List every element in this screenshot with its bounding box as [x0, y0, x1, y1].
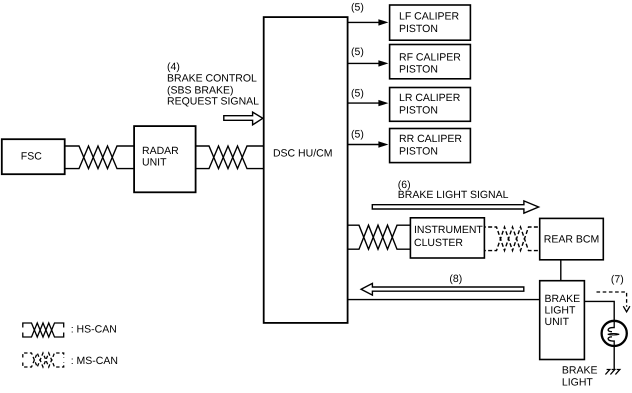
svg-text:REAR BCM: REAR BCM — [544, 234, 599, 246]
svg-text:LIGHT: LIGHT — [562, 377, 594, 389]
box LR CALIPER PISTON — [390, 88, 471, 122]
arrow A6 outline brake light signal arrow — [372, 201, 538, 213]
wire arrow DSC to RF caliper piston — [348, 60, 389, 66]
ground body ground symbol — [605, 370, 619, 375]
box FSC — [2, 139, 65, 174]
svg-text:BRAKE LIGHT SIGNAL: BRAKE LIGHT SIGNAL — [398, 189, 509, 201]
label BRAKE LIGHT — [562, 365, 598, 389]
svg-text:(5): (5) — [351, 128, 364, 140]
svg-text:(5): (5) — [351, 87, 364, 99]
svg-text:CLUSTER: CLUSTER — [414, 237, 463, 249]
svg-text:BRAKE CONTROL: BRAKE CONTROL — [167, 73, 257, 85]
svg-text:RADAR: RADAR — [142, 145, 179, 157]
box REAR BCM — [540, 218, 604, 259]
svg-text:LR CALIPER: LR CALIPER — [399, 92, 461, 104]
wire W1 twisted pair FSC to RADAR UNIT (HS-CAN) — [65, 146, 134, 169]
wire dashed arrow (7) to brake light — [597, 292, 630, 312]
svg-text:PISTON: PISTON — [399, 63, 438, 75]
svg-text:FSC: FSC — [21, 150, 42, 162]
svg-text:REQUEST SIGNAL: REQUEST SIGNAL — [167, 96, 259, 108]
svg-text:(5): (5) — [351, 1, 364, 13]
box LF CALIPER PISTON — [390, 5, 471, 40]
svg-text:(4): (4) — [167, 61, 180, 73]
wire W2 twisted pair RADAR UNIT to DSC HU/CM (HS-CAN) — [196, 146, 264, 169]
svg-text:UNIT: UNIT — [142, 157, 167, 169]
svg-text:(8): (8) — [449, 273, 462, 285]
wire REAR BCM to BRAKE LIGHT UNIT — [560, 260, 562, 281]
svg-text:LF CALIPER: LF CALIPER — [399, 11, 460, 23]
arrow A8 outline return arrow toward DSC — [361, 283, 524, 295]
label (4) BRAKE CONTROL (SBS BRAKE) REQUEST SIGNAL — [167, 61, 259, 108]
svg-text:(SBS BRAKE): (SBS BRAKE) — [167, 84, 234, 96]
svg-text:INSTRUMENT: INSTRUMENT — [414, 224, 483, 236]
box RF CALIPER PISTON — [390, 45, 471, 79]
lamp brake light bulb — [602, 321, 627, 346]
svg-text:(5): (5) — [351, 46, 364, 58]
box INSTRUMENT CLUSTER — [410, 218, 484, 258]
legend symbol MS-CAN twisted pair dashed — [23, 353, 64, 367]
svg-text:RF CALIPER: RF CALIPER — [399, 51, 461, 63]
wire W3 twisted pair DSC to INSTRUMENT CLUSTER (HS-CAN) — [348, 225, 411, 249]
legend symbol HS-CAN twisted pair — [23, 323, 64, 337]
svg-text:PISTON: PISTON — [399, 105, 438, 117]
svg-text:BRAKE: BRAKE — [545, 293, 581, 305]
wire bulb to ground — [613, 346, 615, 369]
wire arrow DSC to LR caliper piston — [348, 100, 389, 106]
arrow A4 outline request-signal arrow into DSC HU/CM — [224, 112, 263, 125]
wire brake light unit to DSC (line 8) — [348, 299, 540, 301]
svg-text:: MS-CAN: : MS-CAN — [71, 355, 118, 367]
svg-text:PISTON: PISTON — [399, 146, 438, 158]
svg-text:(7): (7) — [611, 274, 624, 286]
box RADAR UNIT — [134, 126, 196, 192]
wire arrow DSC to RR caliper piston — [348, 141, 389, 147]
box RR CALIPER PISTON — [390, 129, 471, 163]
svg-text:: HS-CAN: : HS-CAN — [71, 323, 117, 335]
wire W4 twisted pair INSTRUMENT CLUSTER to REAR BCM (MS-CAN, dashed) — [484, 227, 539, 251]
box BRAKE LIGHT UNIT — [540, 281, 585, 360]
label (6) BRAKE LIGHT SIGNAL — [398, 179, 509, 201]
box DSC HU/CM — [264, 17, 348, 323]
svg-text:UNIT: UNIT — [545, 316, 570, 328]
svg-text:RR CALIPER: RR CALIPER — [399, 133, 462, 145]
wire BRAKE LIGHT UNIT to brake light bulb — [584, 301, 614, 320]
wire arrow DSC to LF caliper piston — [348, 19, 389, 25]
svg-text:LIGHT: LIGHT — [545, 305, 577, 317]
svg-text:PISTON: PISTON — [399, 23, 438, 35]
svg-text:BRAKE: BRAKE — [562, 365, 598, 377]
svg-text:DSC HU/CM: DSC HU/CM — [273, 147, 333, 159]
